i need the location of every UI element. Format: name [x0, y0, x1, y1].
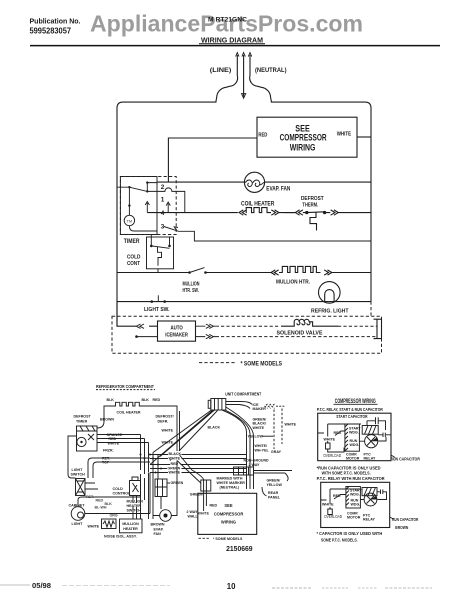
svg-text:WDG.: WDG.: [349, 431, 359, 435]
connector arrows defrost right: [331, 210, 339, 215]
junction dots on harness: [149, 454, 151, 456]
svg-text:WH-YEL: WH-YEL: [255, 448, 270, 452]
svg-text:WIRING DIAGRAM: WIRING DIAGRAM: [201, 35, 263, 44]
svg-text:2: 2: [161, 184, 165, 191]
svg-text:MARKED WITH: MARKED WITH: [217, 477, 243, 481]
run capacitor right: [378, 426, 391, 441]
svg-text:WHITE: WHITE: [169, 456, 181, 460]
svg-text:FRZR.: FRZR.: [103, 449, 114, 453]
thermostat DEFROST THERM.: [303, 211, 331, 231]
svg-text:TIMER: TIMER: [124, 238, 140, 245]
wire timer to light switch: [68, 436, 77, 478]
svg-text:SEE: SEE: [224, 503, 232, 508]
wire coil heater rung: [147, 212, 371, 214]
cold control contacts: [150, 235, 171, 273]
motor circle comp: [359, 435, 377, 448]
svg-text:COLD: COLD: [127, 254, 140, 260]
svg-text:OVERLOAD: OVERLOAD: [324, 514, 342, 519]
run capacitor 2: [377, 490, 387, 500]
svg-text:BROWN: BROWN: [100, 418, 114, 422]
icemaker connector glyph: [265, 404, 285, 408]
motor circle comp 2: [360, 493, 377, 506]
svg-text:COIL HEATER: COIL HEATER: [117, 411, 141, 415]
wire icemaker feed: [117, 302, 158, 327]
dashed some-models box: [112, 316, 382, 353]
svg-text:* SOME MODELS: * SOME MODELS: [241, 360, 283, 367]
svg-text:RED: RED: [258, 132, 267, 138]
switch MULLION HTR. SW.: [188, 268, 207, 274]
svg-text:4: 4: [161, 210, 165, 217]
svg-text:ICEMAKER: ICEMAKER: [165, 333, 188, 339]
wire mesh center: [96, 453, 153, 520]
svg-text:YELLOW: YELLOW: [267, 483, 283, 487]
box AUTO ICEMAKER: [158, 321, 196, 341]
box2 ptc relay with run capacitor: [321, 482, 390, 527]
svg-text:EVAP. FAN: EVAP. FAN: [266, 185, 290, 192]
svg-text:MOTOR: MOTOR: [346, 457, 360, 461]
svg-text:DEFROST: DEFROST: [74, 415, 92, 419]
svg-text:RED: RED: [153, 398, 161, 402]
svg-text:CONTROL: CONTROL: [113, 492, 132, 496]
overload protector 2: [328, 507, 333, 515]
harness verticals to compressor: [222, 407, 254, 489]
timer internal wires: [117, 181, 170, 231]
compressor plug: [201, 480, 211, 511]
power cord plug prongs: [216, 53, 272, 103]
connector arrows defrost left: [295, 210, 303, 215]
wire compressor red lead: [168, 138, 257, 182]
svg-text:(LINE): (LINE): [210, 67, 232, 74]
connector arrows mullion right: [324, 270, 332, 275]
svg-text:(NEUTRAL): (NEUTRAL): [255, 67, 287, 74]
svg-text:SWITCH: SWITCH: [71, 473, 86, 477]
svg-text:2 WAY: 2 WAY: [187, 510, 198, 514]
box MULLION HEATER: [120, 519, 143, 533]
svg-text:3: 3: [161, 224, 165, 231]
box SEE COMPRESSOR WIRING (pictorial): [198, 493, 257, 534]
svg-text:MULLION HTR.: MULLION HTR.: [276, 279, 310, 285]
svg-text:BLACK: BLACK: [208, 425, 221, 429]
svg-text:BL-WH: BL-WH: [95, 506, 107, 510]
connector arrows coil heater left: [239, 210, 247, 215]
svg-text:BROWN: BROWN: [151, 523, 165, 527]
box1 ptc relay start and run capacitor: [318, 413, 391, 461]
wire terminal3 rung: [164, 227, 371, 242]
svg-text:5995283057: 5995283057: [30, 26, 72, 36]
svg-text:HEATER: HEATER: [123, 527, 138, 531]
svg-text:BLK: BLK: [142, 398, 150, 402]
svg-text:* SOME MODELS: * SOME MODELS: [213, 537, 243, 541]
wire defrost therm drop: [152, 406, 180, 455]
motor evap fan (pictorial): [153, 461, 177, 522]
svg-text:LIGHT: LIGHT: [72, 522, 84, 526]
svg-text:FAN: FAN: [154, 532, 162, 536]
svg-text:1: 1: [161, 197, 165, 204]
svg-text:2 WAY: 2 WAY: [249, 463, 260, 467]
svg-text:WHITE: WHITE: [253, 426, 265, 430]
svg-text:Publication No.: Publication No.: [30, 17, 81, 26]
svg-text:WDG.: WDG.: [351, 503, 361, 507]
timer box dashed: [120, 177, 176, 235]
svg-text:WHITE: WHITE: [198, 512, 210, 516]
svg-text:2150669: 2150669: [226, 544, 253, 553]
wire to icemaker connector: [226, 402, 252, 409]
light switch (pictorial): [76, 479, 99, 496]
wire white lead 2: [321, 489, 361, 503]
connector arrows coil heater right: [271, 210, 295, 215]
ptc relay body: [362, 426, 378, 435]
resistor COIL HEATER: [246, 208, 271, 213]
svg-text:REFRIG. LIGHT: REFRIG. LIGHT: [311, 309, 349, 315]
svg-text:RUN CAPACITOR: RUN CAPACITOR: [392, 517, 419, 522]
svg-text:WHITE: WHITE: [162, 429, 174, 433]
wire white lead: [318, 424, 361, 437]
svg-text:CONT: CONT: [127, 261, 140, 267]
wire diagonals to compressor plug: [177, 455, 204, 483]
wires light switch up: [88, 458, 150, 478]
diagonal harness wires left: [150, 410, 218, 465]
svg-text:TIMER: TIMER: [76, 420, 88, 424]
connector arrows mullion left: [271, 270, 279, 275]
svg-text:M RT21GNC: M RT21GNC: [208, 16, 247, 23]
svg-text:WDG.: WDG.: [350, 443, 360, 447]
svg-text:MULLION: MULLION: [183, 281, 200, 287]
harness bundle horizontals: [150, 455, 247, 473]
coil SOLENOID VALVE: [281, 319, 338, 326]
svg-text:SOLENOID VALVE: SOLENOID VALVE: [277, 331, 323, 337]
svg-text:ORG: ORG: [110, 514, 118, 518]
timer output wires: [97, 435, 149, 443]
svg-text:RELAY: RELAY: [363, 518, 375, 522]
wire dashed to solenoid: [221, 325, 280, 327]
faint scan line left: [0, 584, 30, 586]
svg-text:WHITE: WHITE: [88, 525, 100, 529]
svg-text:MULLION: MULLION: [122, 522, 139, 526]
svg-text:LIGHT SW.: LIGHT SW.: [144, 307, 170, 313]
wire top rail: [117, 102, 371, 108]
svg-text:RELAY: RELAY: [364, 457, 376, 461]
connector arrows icemaker left: [136, 324, 144, 328]
svg-text:RED: RED: [210, 504, 218, 508]
wire light rung: [117, 301, 371, 303]
svg-text:AppliancePartsPros.com: AppliancePartsPros.com: [90, 11, 363, 37]
svg-text:WHITE: WHITE: [322, 502, 334, 506]
connector arrows icemaker right top: [196, 324, 220, 328]
cold control box: [147, 237, 174, 269]
neutral connector block: [234, 467, 293, 475]
svg-text:WHITE: WHITE: [324, 437, 336, 441]
svg-text:*RUN CAPACITOR IS ONLY USED: *RUN CAPACITOR IS ONLY USED: [317, 465, 381, 471]
svg-text:WIRING: WIRING: [290, 143, 316, 153]
svg-text:BROWN: BROWN: [395, 525, 408, 530]
svg-text:WHITE: WHITE: [169, 470, 181, 474]
svg-text:RET.: RET.: [86, 495, 94, 499]
svg-text:HEATER: HEATER: [127, 504, 142, 508]
svg-text:START CAPACITOR: START CAPACITOR: [336, 414, 368, 419]
svg-text:PANEL: PANEL: [268, 495, 281, 499]
svg-text:UNIT COMPARTMENT: UNIT COMPARTMENT: [225, 391, 261, 397]
svg-text:10: 10: [227, 582, 236, 591]
resistor coil heater (pictorial): [97, 402, 152, 428]
svg-text:COMPRESSOR: COMPRESSOR: [280, 133, 327, 143]
svg-text:LIGHT: LIGHT: [72, 468, 84, 472]
bundle labels: [167, 451, 182, 474]
svg-text:DEFROST: DEFROST: [301, 196, 324, 202]
svg-text:AUTO: AUTO: [171, 326, 183, 332]
svg-text:HTR. SW.: HTR. SW.: [183, 288, 200, 294]
svg-text:WALL: WALL: [188, 515, 199, 519]
overload protector: [326, 441, 345, 452]
svg-text:COMPRESSOR: COMPRESSOR: [214, 512, 244, 517]
wire compressor white lead: [357, 136, 371, 138]
lamp REFRIG. LIGHT: [319, 282, 341, 304]
unit compartment connector plug: [208, 399, 226, 411]
timer motor TM: [124, 215, 134, 225]
svg-text:MOTOR: MOTOR: [347, 516, 361, 520]
svg-text:WDG.: WDG.: [350, 493, 360, 497]
capacitor start: [367, 417, 386, 426]
wire right rail: [370, 108, 372, 302]
svg-text:(NEUTRAL): (NEUTRAL): [220, 486, 240, 490]
compressor box SEE COMPRESSOR WIRING: [257, 117, 357, 157]
svg-text:P.T.C. RELAY WITH RUN CAPACITO: P.T.C. RELAY WITH RUN CAPACITOR: [317, 476, 385, 482]
ptc relay body 2: [362, 488, 377, 496]
svg-text:TOP: TOP: [102, 461, 110, 465]
svg-text:THERM.: THERM.: [302, 203, 318, 209]
svg-text:WIRING: WIRING: [221, 520, 236, 525]
svg-text:COLD: COLD: [113, 487, 124, 491]
svg-text:P.T.C. RELAY, START & RUN CAPA: P.T.C. RELAY, START & RUN CAPACITOR: [317, 407, 383, 413]
defrost timer (pictorial): [77, 426, 98, 451]
svg-text:COIL HEATER: COIL HEATER: [241, 201, 275, 208]
svg-text:05/98: 05/98: [32, 583, 51, 590]
winding box 2: [346, 487, 363, 509]
winding box start/run: [345, 424, 362, 451]
noise isolator resistor box: [102, 519, 117, 529]
wire terminal2 to coil rung with hump: [147, 188, 185, 213]
icemaker lower lead: [137, 336, 158, 338]
legend some models (pictorial): [199, 537, 211, 539]
svg-text:NOISE ISOL. ASSY.: NOISE ISOL. ASSY.: [104, 535, 137, 539]
motor EVAP. FAN: [244, 172, 264, 192]
svg-text:DEFR.: DEFR.: [158, 420, 169, 424]
svg-text:BLK: BLK: [107, 398, 115, 402]
defrost thermostat (pictorial component): [155, 455, 167, 509]
legend SOME MODELS: [199, 362, 236, 364]
svg-text:RED: RED: [96, 499, 104, 503]
dashed icemaker wires: [274, 409, 282, 450]
svg-text:GRAY: GRAY: [271, 450, 282, 454]
connector arrows icemaker right bottom: [196, 334, 220, 338]
svg-text:* CAPACITOR IS ONLY USED WITH: * CAPACITOR IS ONLY USED WITH: [317, 531, 383, 537]
svg-text:SOME P.T.C. MODELS.: SOME P.T.C. MODELS.: [321, 538, 358, 544]
switch LIGHT SW.: [151, 295, 167, 303]
mullion heater switch drops: [133, 496, 137, 519]
wire mullion rung: [117, 272, 371, 274]
wire evap fan rung: [157, 181, 371, 183]
cold control (pictorial): [130, 477, 141, 496]
header rule: [30, 45, 440, 47]
svg-text:WHITE: WHITE: [162, 441, 174, 445]
faint scan text bottom right: [272, 587, 312, 589]
svg-text:OVERLOAD: OVERLOAD: [323, 453, 341, 458]
svg-text:WHITE: WHITE: [337, 132, 352, 138]
svg-text:MAKER: MAKER: [253, 407, 267, 411]
wire left rail: [116, 108, 118, 326]
svg-text:TM: TM: [127, 220, 132, 224]
resistor MULLION HTR.: [279, 266, 321, 272]
svg-text:SWITCH: SWITCH: [127, 509, 142, 513]
svg-text:WHITE MARKER: WHITE MARKER: [217, 481, 246, 485]
bracket right of icemaker lines: [374, 319, 382, 338]
svg-text:WHITE: WHITE: [108, 441, 120, 445]
svg-text:WHITE: WHITE: [285, 423, 297, 427]
svg-text:DEFROST/: DEFROST/: [156, 415, 174, 419]
lamp cabinet light: [71, 497, 104, 520]
svg-text:WITH SOME P.T.C. MODELS.: WITH SOME P.T.C. MODELS.: [322, 471, 371, 477]
